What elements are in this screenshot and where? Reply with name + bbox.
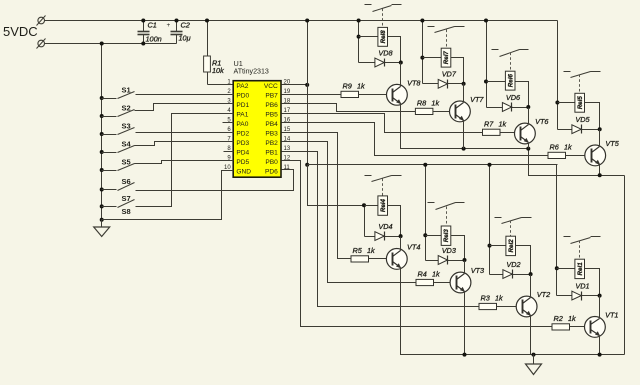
wire pin14 to R4	[282, 142, 417, 283]
svg-text:11: 11	[284, 165, 291, 171]
svg-text:PB1: PB1	[265, 150, 278, 157]
svg-text:C1: C1	[148, 21, 157, 30]
relay coil Rel5	[558, 102, 575, 104]
dashed link contact to coil Rel6	[510, 53, 512, 72]
svg-text:VD5: VD5	[575, 115, 590, 124]
relay coil Rel7	[423, 57, 442, 59]
svg-text:PD3: PD3	[236, 140, 249, 147]
svg-text:R3: R3	[481, 294, 490, 303]
wire coil Rel2 to collector	[516, 246, 531, 298]
switch S4	[100, 150, 104, 154]
wire coil Rel7 to collector	[451, 58, 464, 103]
transistor VT4	[386, 249, 407, 270]
wire S1 to pin2	[136, 94, 234, 96]
svg-text:R9: R9	[343, 81, 352, 90]
svg-text:Rel3: Rel3	[443, 229, 450, 243]
resistor R5 1k	[351, 256, 369, 262]
wire switch bus	[101, 44, 103, 220]
wire R1 to pin1	[208, 84, 234, 86]
svg-text:1k: 1k	[499, 119, 507, 128]
svg-text:VT7: VT7	[470, 95, 484, 104]
wire +5V top rail	[45, 20, 558, 22]
switch S3	[100, 132, 104, 136]
resistor R1 10k	[207, 21, 209, 57]
svg-text:10k: 10k	[212, 66, 224, 75]
wire coil Rel8 to collector	[388, 37, 401, 87]
relay contact K6	[492, 49, 499, 51]
svg-text:+: +	[167, 22, 171, 29]
wire right edge down	[624, 176, 626, 355]
wire pin15 to R5	[282, 133, 352, 259]
svg-text:GND: GND	[236, 169, 251, 176]
svg-text:VD1: VD1	[575, 281, 589, 290]
svg-text:Rel6: Rel6	[507, 74, 514, 88]
wire collector channel 2	[530, 275, 532, 298]
switch S1	[100, 96, 104, 100]
terminal X1 (+5V)	[38, 17, 45, 24]
svg-text:VT4: VT4	[407, 242, 420, 251]
wire collector channel 8	[400, 63, 402, 87]
svg-text:C2: C2	[181, 21, 190, 30]
relay contact K5	[564, 71, 571, 73]
svg-text:VT5: VT5	[605, 139, 619, 148]
svg-text:S4: S4	[122, 139, 132, 148]
diode VD7	[423, 83, 464, 85]
svg-text:PA1: PA1	[236, 112, 248, 119]
svg-text:VT1: VT1	[605, 310, 618, 319]
svg-text:PB4: PB4	[265, 121, 278, 128]
svg-text:Rel8: Rel8	[380, 30, 387, 44]
svg-text:VCC: VCC	[264, 83, 278, 90]
svg-text:PB5: PB5	[265, 112, 278, 119]
wire S8 row to pin10 GND	[102, 171, 234, 220]
dashed link contact to coil Rel2	[510, 221, 512, 237]
diode VD3	[426, 260, 465, 262]
relay coil Rel8	[359, 36, 378, 38]
switch S8 (shown closed)	[100, 218, 104, 222]
terminal X2 (0V)	[38, 40, 45, 47]
svg-text:PD5: PD5	[236, 159, 249, 166]
wire collector channel 1	[599, 296, 601, 319]
svg-text:R7: R7	[484, 119, 494, 128]
svg-text:Rel5: Rel5	[577, 96, 584, 110]
svg-text:VT2: VT2	[537, 290, 550, 299]
resistor R4 1k	[416, 279, 434, 285]
wire emitter rail top row	[401, 104, 625, 176]
wire bottom ground rail	[401, 268, 625, 355]
dashed link contact to coil Rel1	[579, 241, 581, 260]
svg-text:VD8: VD8	[378, 48, 393, 57]
wire pin13 to R3	[282, 152, 480, 307]
wire collector channel 4	[400, 237, 402, 251]
svg-text:S7: S7	[122, 194, 131, 203]
wire coil Rel1 to collector	[585, 269, 600, 319]
svg-text:1k: 1k	[431, 98, 439, 107]
ground (bottom)	[533, 355, 535, 365]
wire supply drop channel 8	[358, 21, 360, 63]
dashed link contact to coil Rel4	[382, 179, 384, 196]
svg-text:Rel2: Rel2	[508, 239, 515, 253]
svg-text:PB2: PB2	[265, 140, 278, 147]
wire supply drop channel 3	[425, 165, 427, 261]
svg-text:100n: 100n	[146, 35, 162, 44]
wire S2 to pin3	[135, 104, 234, 111]
diode VD6	[487, 107, 529, 109]
resistor R6 1k	[548, 152, 566, 158]
wire collector channel 3	[464, 261, 466, 274]
wire coil Rel5 to collector	[585, 103, 600, 147]
wire pin8 stub	[224, 151, 234, 153]
wire supply drop channel 6	[486, 21, 488, 108]
resistor R2 1k	[552, 324, 570, 330]
wire VCC drop to Rel4	[308, 165, 365, 206]
dashed link contact to coil Rel7	[446, 30, 448, 49]
svg-text:VT3: VT3	[471, 266, 484, 275]
svg-text:5VDC: 5VDC	[3, 24, 38, 39]
svg-text:PD6: PD6	[265, 169, 278, 176]
relay contact K1	[564, 236, 571, 238]
svg-text:R4: R4	[418, 270, 427, 279]
svg-text:VD4: VD4	[378, 222, 392, 231]
transistor VT5	[585, 145, 606, 166]
transistor VT1	[585, 317, 606, 338]
wire pin16 to R6	[282, 123, 549, 156]
wire pin5 stub	[223, 122, 234, 124]
svg-text:PB6: PB6	[265, 102, 278, 109]
relay coil Rel1	[557, 268, 575, 270]
svg-text:PB3: PB3	[265, 131, 278, 138]
wire collector channel 5	[599, 130, 601, 147]
svg-text:1k: 1k	[495, 294, 503, 303]
dashed link contact to coil Rel3	[446, 207, 448, 227]
switch S2	[100, 114, 104, 118]
svg-text:VD6: VD6	[506, 93, 521, 102]
wire collector channel 7	[463, 84, 465, 103]
switch S7	[100, 204, 104, 208]
resistor R7 1k	[483, 129, 501, 135]
switch S5	[100, 168, 104, 172]
svg-text:10μ: 10μ	[179, 34, 191, 43]
svg-text:S2: S2	[122, 103, 131, 112]
diode VD4	[365, 236, 401, 238]
wire S4 to pin7	[135, 142, 234, 146]
wire lower relay supply rail	[308, 164, 558, 166]
wire supply drop channel 1	[556, 165, 558, 296]
wire pin19 to R9	[282, 94, 342, 96]
svg-text:1k: 1k	[357, 81, 365, 90]
svg-text:S3: S3	[122, 121, 131, 130]
svg-text:R5: R5	[353, 246, 363, 255]
relay coil Rel6	[487, 81, 506, 83]
svg-text:PD4: PD4	[236, 150, 249, 157]
resistor R3 1k	[479, 303, 497, 309]
dashed link contact to coil Rel5	[579, 75, 581, 94]
capacitor C2 10u electrolytic	[176, 21, 178, 32]
wire supply drop channel 7	[422, 21, 424, 84]
resistor R9 1k	[341, 91, 359, 97]
svg-text:VT8: VT8	[407, 78, 421, 87]
relay coil Rel3	[426, 235, 442, 237]
wire supply stub channel 4	[364, 206, 366, 237]
wire pin17 to R7	[282, 114, 483, 133]
relay contact K7	[428, 26, 435, 28]
wire pin12 to R2	[282, 161, 553, 327]
diode VD5	[558, 129, 600, 131]
svg-text:R2: R2	[554, 314, 563, 323]
wire S6 under IC to pin11	[136, 170, 294, 191]
svg-text:1k: 1k	[564, 142, 572, 151]
wire S3 to pin6	[136, 132, 234, 134]
transistor VT7	[450, 101, 471, 122]
svg-text:PA2: PA2	[236, 83, 248, 90]
dashed link contact to coil Rel8	[382, 9, 384, 28]
capacitor C1 100n	[143, 21, 145, 32]
svg-text:R6: R6	[550, 142, 560, 151]
diode VD8	[359, 62, 401, 64]
wire coil Rel3 to collector	[451, 236, 465, 274]
svg-text:1k: 1k	[432, 270, 440, 279]
svg-text:S5: S5	[122, 157, 131, 166]
wire S5 to pin9	[135, 161, 234, 164]
wire coil Rel4 to collector	[388, 206, 401, 251]
svg-text:R8: R8	[417, 98, 427, 107]
wire VCC pin20 to top rail	[282, 84, 308, 86]
wire collector channel 6	[528, 108, 530, 125]
diode VD1	[557, 295, 600, 297]
switch S6	[100, 188, 104, 192]
wire VCC down to lower relay rail	[307, 85, 309, 165]
relay coil Rel2	[490, 245, 506, 247]
wire 0V lower	[45, 43, 177, 45]
wire coil Rel6 to collector	[516, 82, 529, 125]
svg-text:PB0: PB0	[265, 159, 278, 166]
wire supply drop channel 5	[557, 21, 559, 130]
svg-text:1k: 1k	[568, 314, 576, 323]
relay contact K4	[365, 175, 372, 177]
diode VD2	[490, 274, 531, 276]
svg-text:PA0: PA0	[236, 121, 248, 128]
resistor R8 1k	[415, 108, 433, 114]
relay contact K3	[428, 202, 435, 204]
ground (left)	[101, 220, 103, 228]
svg-text:PD1: PD1	[236, 102, 249, 109]
svg-text:Rel4: Rel4	[380, 199, 387, 213]
svg-text:S6: S6	[122, 177, 131, 186]
svg-text:ATtiny2313: ATtiny2313	[234, 68, 269, 76]
svg-text:VT6: VT6	[535, 117, 549, 126]
svg-text:VD2: VD2	[506, 260, 520, 269]
wire supply drop channel 2	[489, 165, 491, 275]
svg-text:PB7: PB7	[265, 93, 278, 100]
svg-text:Rel7: Rel7	[443, 51, 450, 65]
wire S7 to pin4	[136, 114, 234, 207]
wire pin18 to R8	[282, 104, 416, 112]
relay coil Rel4	[365, 205, 378, 207]
svg-text:Rel1: Rel1	[577, 262, 584, 276]
transistor VT3	[450, 272, 471, 293]
transistor VT8	[387, 84, 408, 105]
svg-text:PD2: PD2	[236, 131, 249, 138]
svg-text:VD7: VD7	[442, 70, 457, 79]
svg-text:S1: S1	[122, 85, 131, 94]
relay contact K2	[495, 217, 502, 219]
svg-text:VD3: VD3	[442, 246, 456, 255]
svg-text:S8: S8	[122, 207, 131, 216]
transistor VT2	[516, 296, 537, 317]
transistor VT6	[515, 123, 536, 144]
relay contact K8	[365, 4, 372, 6]
svg-text:1k: 1k	[367, 246, 375, 255]
svg-text:PD0: PD0	[236, 93, 249, 100]
